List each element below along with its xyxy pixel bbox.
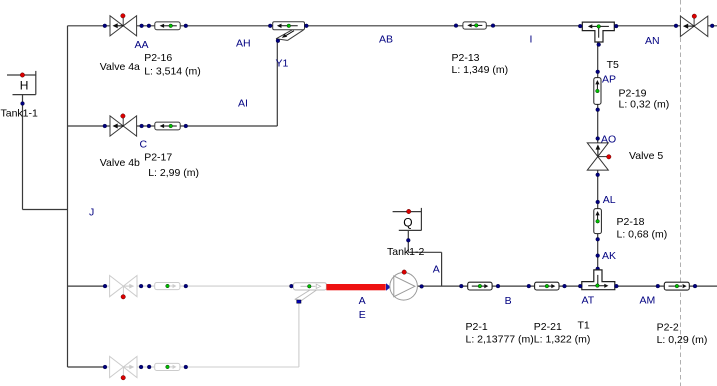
svg-text:L: 0,29 (m): L: 0,29 (m) bbox=[657, 334, 708, 346]
svg-text:J: J bbox=[89, 206, 94, 218]
node dot right of P2-17 bbox=[184, 124, 188, 128]
node dot right of gray pipe row1 bbox=[184, 284, 188, 288]
node dots beside top-right valve bbox=[674, 24, 678, 28]
node dot right of pump bbox=[420, 285, 424, 289]
svg-text:Valve 4b: Valve 4b bbox=[100, 157, 140, 169]
node dot left of valve AA bbox=[103, 24, 107, 28]
svg-text:AT: AT bbox=[582, 294, 595, 306]
wire node A vertical bbox=[441, 252, 443, 286]
node dot below Valve 5 bbox=[596, 173, 600, 177]
svg-text:P2-13: P2-13 bbox=[452, 52, 480, 64]
svg-text:E: E bbox=[359, 309, 366, 321]
wire gray branch 1 bbox=[105, 286, 299, 367]
svg-text:L: 0,68 (m): L: 0,68 (m) bbox=[617, 229, 668, 241]
pipe P2-16 bbox=[155, 22, 180, 30]
svg-text:L: 3,514 (m): L: 3,514 (m) bbox=[144, 66, 201, 78]
node dot right of P2-1 bbox=[496, 284, 500, 288]
node dot right of gray pipe row2 bbox=[184, 365, 188, 369]
wire gray vertical riser bbox=[298, 303, 300, 367]
pipe P2-17 bbox=[155, 122, 180, 130]
svg-text:AB: AB bbox=[379, 33, 393, 45]
svg-text:Q: Q bbox=[403, 215, 412, 229]
node dots beside tee T1 bbox=[578, 284, 582, 288]
svg-text:P2-18: P2-18 bbox=[617, 216, 645, 228]
svg-text:B: B bbox=[505, 295, 512, 307]
node dot below P2-19 bbox=[596, 108, 600, 112]
red pipe arrowhead bbox=[386, 283, 391, 290]
svg-text:L: 1,349 (m): L: 1,349 (m) bbox=[452, 64, 509, 76]
wire tank1-2 horizontal bbox=[408, 251, 441, 253]
node dot above tee T1 bbox=[596, 267, 600, 271]
pipe P2-19 bbox=[594, 78, 601, 105]
svg-text:P2-2: P2-2 bbox=[657, 322, 679, 334]
node dots beside P2-13 bbox=[454, 24, 458, 28]
pipe gray row1 bbox=[155, 283, 180, 290]
node dot below Tank1-2 bbox=[406, 238, 410, 242]
pipe P2-13 bbox=[463, 22, 486, 29]
tee T5 bbox=[582, 22, 614, 42]
node dot right of P2-21 bbox=[563, 284, 567, 288]
svg-text:L: 2,99 (m): L: 2,99 (m) bbox=[148, 167, 199, 179]
node dot left of P2-21 bbox=[527, 284, 531, 288]
node dot below Y1 bbox=[276, 39, 280, 43]
svg-text:L: 2,13777 (m): L: 2,13777 (m) bbox=[466, 334, 534, 346]
wire gray branch 2 bbox=[105, 366, 299, 368]
svg-text:AH: AH bbox=[236, 38, 251, 50]
node dot right of P2-2 bbox=[693, 284, 697, 288]
svg-text:P2-21: P2-21 bbox=[534, 321, 562, 333]
svg-text:L: 0,32 (m): L: 0,32 (m) bbox=[619, 98, 670, 110]
page-break dashed line bbox=[680, 0, 682, 386]
svg-text:P2-1: P2-1 bbox=[466, 321, 488, 333]
svg-text:T5: T5 bbox=[607, 59, 619, 71]
svg-text:Valve 4a: Valve 4a bbox=[100, 61, 140, 73]
node dots around tee T5 bbox=[578, 24, 582, 28]
valve gray row1 bbox=[110, 276, 137, 299]
node dot right of P2-16 bbox=[184, 24, 188, 28]
valve top-right bbox=[680, 14, 707, 37]
svg-text:AO: AO bbox=[601, 134, 616, 146]
node dot below Tank1-1 bbox=[21, 102, 25, 106]
wire stub lower branch 2 bbox=[68, 366, 106, 368]
svg-text:C: C bbox=[140, 139, 148, 151]
node dot below T5 stem bbox=[596, 70, 600, 74]
svg-text:AP: AP bbox=[602, 73, 616, 85]
svg-text:T1: T1 bbox=[578, 320, 590, 332]
pipe P2-2 bbox=[664, 282, 689, 290]
Y1 zigzag arrow bbox=[286, 31, 295, 36]
wire tank1-1 to J bbox=[23, 209, 68, 211]
tee T1 bbox=[582, 270, 615, 290]
svg-text:Y1: Y1 bbox=[276, 57, 289, 69]
svg-text:A: A bbox=[359, 295, 366, 307]
node dot AK bbox=[596, 254, 600, 258]
node dots right of valve AA bbox=[140, 24, 144, 28]
svg-text:AI: AI bbox=[238, 97, 248, 109]
node dot AL bbox=[596, 200, 600, 204]
svg-text:Tank1-1: Tank1-1 bbox=[1, 108, 39, 120]
wire branch AI bbox=[68, 125, 278, 127]
wire tank1-1 drop bbox=[22, 95, 24, 210]
svg-text:I: I bbox=[530, 33, 533, 45]
valve C (Valve 4b) bbox=[110, 114, 137, 136]
svg-text:P2-16: P2-16 bbox=[144, 52, 172, 64]
svg-text:P2-17: P2-17 bbox=[144, 152, 172, 164]
svg-text:AA: AA bbox=[135, 39, 149, 51]
valve AA bbox=[110, 14, 137, 36]
node dot left of P2-1 bbox=[459, 284, 463, 288]
wire Y1 drop bbox=[276, 41, 278, 126]
node dot left of valve C bbox=[103, 124, 107, 128]
node dot left of P2-2 bbox=[656, 284, 660, 288]
svg-text:AL: AL bbox=[603, 194, 616, 206]
svg-text:AN: AN bbox=[645, 35, 660, 47]
wire bottom row bbox=[418, 285, 717, 287]
wire tank1-2 drop bbox=[407, 230, 409, 252]
node dots gray row1 bbox=[103, 284, 107, 288]
node dots gray row2 bbox=[103, 365, 107, 369]
svg-text:Tank1-2: Tank1-2 bbox=[387, 246, 425, 258]
pipe P2-1 bbox=[468, 282, 492, 290]
svg-text:AM: AM bbox=[640, 295, 656, 307]
tank Tank1-1 bbox=[7, 71, 36, 95]
svg-text:A: A bbox=[433, 264, 440, 276]
pipe P2-21 bbox=[535, 282, 559, 290]
node dot AO bbox=[596, 137, 600, 141]
node dots right of valve C bbox=[140, 124, 144, 128]
node square below pipe E bbox=[297, 300, 301, 303]
wire top branch AB bbox=[68, 25, 717, 27]
node dot left of pipe E bbox=[290, 284, 294, 288]
valve Valve 5 (vertical) bbox=[587, 143, 611, 170]
red pipe A bbox=[326, 284, 385, 290]
valve gray row2 bbox=[110, 356, 137, 380]
tank Tank1-2 bbox=[393, 208, 422, 231]
wire stub lower branch 1 bbox=[68, 285, 106, 287]
wire right column bbox=[597, 30, 599, 283]
pipe E zigzag leader bbox=[295, 290, 317, 301]
svg-text:AK: AK bbox=[602, 250, 616, 262]
node dot below P2-18 bbox=[596, 237, 600, 241]
svg-text:H: H bbox=[20, 79, 29, 93]
pipe Y1 bbox=[273, 22, 305, 30]
Y1 zigzag leader bbox=[276, 30, 304, 41]
pipe P2-18 bbox=[594, 209, 602, 234]
pump bbox=[390, 270, 418, 300]
pipe gray row2 bbox=[155, 363, 180, 370]
node dots beside pipe Y1 bbox=[268, 24, 272, 28]
pipe E bbox=[294, 283, 327, 290]
svg-text:L: 1,322 (m): L: 1,322 (m) bbox=[534, 334, 591, 346]
svg-text:Valve 5: Valve 5 bbox=[629, 150, 663, 162]
